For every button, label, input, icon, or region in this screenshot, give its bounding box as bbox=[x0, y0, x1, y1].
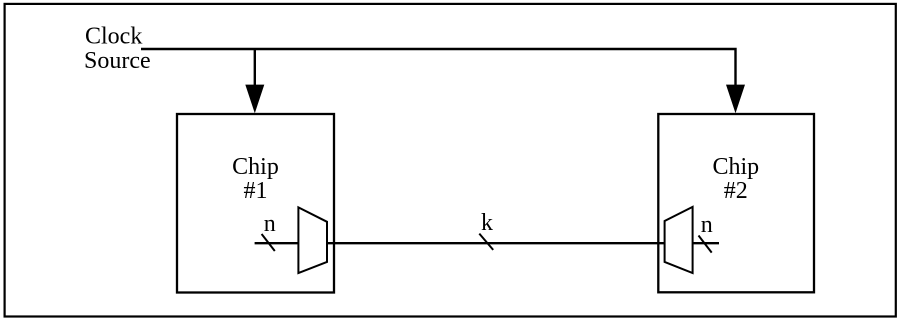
svg-text:#1: #1 bbox=[244, 178, 268, 204]
wire clock drop to chip 1 bbox=[254, 49, 256, 90]
arrowhead into chip 2 bbox=[726, 85, 745, 114]
wire clock distribution line bbox=[141, 49, 736, 90]
wire n-bit bus in chip 1 bbox=[255, 242, 299, 244]
svg-text:#2: #2 bbox=[724, 178, 748, 204]
svg-text:n: n bbox=[701, 212, 713, 238]
chip U2 box bbox=[658, 114, 814, 292]
wire k-bit channel between chips bbox=[327, 242, 665, 244]
deserializer mux in chip 2 bbox=[665, 207, 693, 273]
svg-text:k: k bbox=[481, 210, 493, 236]
svg-text:Chip: Chip bbox=[232, 154, 279, 180]
arrowhead into chip 1 bbox=[245, 85, 264, 114]
svg-text:n: n bbox=[264, 211, 276, 237]
bus width tick n chip 2 bbox=[699, 236, 712, 253]
svg-text:Source: Source bbox=[84, 48, 151, 74]
serializer mux in chip 1 bbox=[298, 207, 327, 273]
chip U1 box bbox=[177, 114, 334, 293]
chip U2 label bbox=[712, 154, 759, 204]
clock source label bbox=[84, 24, 151, 75]
svg-text:Chip: Chip bbox=[712, 154, 759, 180]
bus width tick k bbox=[479, 234, 493, 250]
chip U1 label bbox=[232, 154, 279, 204]
svg-text:Clock: Clock bbox=[85, 24, 142, 50]
bus width tick n chip 1 bbox=[262, 234, 275, 251]
wire n-bit bus in chip 2 bbox=[693, 242, 719, 244]
